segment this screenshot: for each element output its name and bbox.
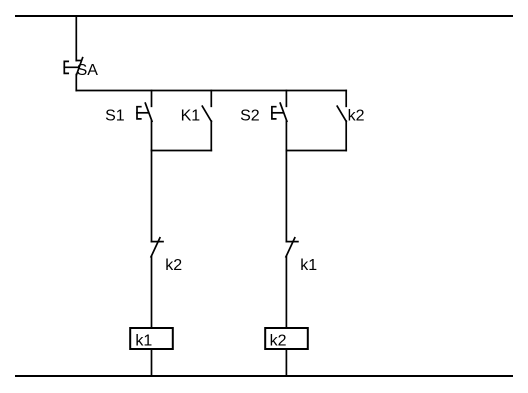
wire: top rail down to switch SA — [75, 16, 77, 61]
bottom power rail — [16, 375, 512, 377]
wire: bus down to contact K1 — [210, 91, 212, 107]
pushbutton S1 lever — [145, 103, 152, 121]
contact k1 (NC) lever — [286, 238, 295, 257]
wire: k2 hold to join node — [345, 121, 347, 150]
wire: right branch down to contact k1 — [285, 151, 287, 242]
contact k2 (NC) tick — [152, 241, 164, 243]
switch SA lever — [77, 58, 83, 75]
svg-text:K1: K1 — [181, 108, 201, 125]
wire: SA to horizontal bus — [75, 75, 77, 91]
wire: bus down to contact k2 (hold) — [345, 91, 347, 107]
coil k2 box — [265, 328, 308, 349]
wire: contact k1 to coil k2 — [285, 257, 287, 329]
wire: S1 to join node — [151, 121, 153, 150]
svg-text:k2: k2 — [348, 108, 365, 125]
wire: coil k2 to bottom rail — [285, 349, 287, 376]
wire: bus down to S2 — [285, 91, 287, 107]
wire: S2 to join node — [285, 121, 287, 150]
pushbutton S1 actuator bracket — [137, 107, 141, 119]
pushbutton S2 actuator link — [272, 112, 283, 114]
contact k2 (NC) lever — [151, 238, 160, 257]
switch SA actuator link — [64, 66, 78, 68]
svg-text:S2: S2 — [240, 108, 260, 125]
wire: join of S2 and k2 branches — [286, 150, 346, 152]
contact K1 (NO) lever — [202, 106, 211, 121]
pushbutton S1 actuator link — [137, 112, 148, 114]
svg-text:k2: k2 — [270, 333, 287, 350]
top power rail — [16, 15, 512, 17]
wire: coil k1 to bottom rail — [151, 349, 153, 376]
contact k1 (NC) tick — [286, 241, 298, 243]
contact k2 (NO, hold) lever — [337, 106, 346, 121]
switch SA actuator bracket — [64, 61, 68, 73]
wire: join of S1 and K1 branches — [152, 150, 212, 152]
wire: left branch down to contact k2 — [151, 151, 153, 242]
svg-text:SA: SA — [77, 62, 99, 79]
coil k1 box — [130, 328, 173, 349]
wire: contact k2 to coil k1 — [151, 257, 153, 329]
wire: horizontal bus — [76, 90, 346, 92]
pushbutton S2 actuator bracket — [272, 107, 276, 119]
svg-text:k1: k1 — [300, 257, 317, 274]
pushbutton S2 lever — [280, 103, 287, 121]
svg-text:S1: S1 — [105, 108, 125, 125]
switch SA (NC manual switch): contact tick — [76, 60, 81, 62]
wire: bus down to S1 — [151, 91, 153, 107]
svg-text:k1: k1 — [135, 333, 152, 350]
wire: K1 to join node — [210, 121, 212, 150]
svg-text:k2: k2 — [165, 257, 182, 274]
